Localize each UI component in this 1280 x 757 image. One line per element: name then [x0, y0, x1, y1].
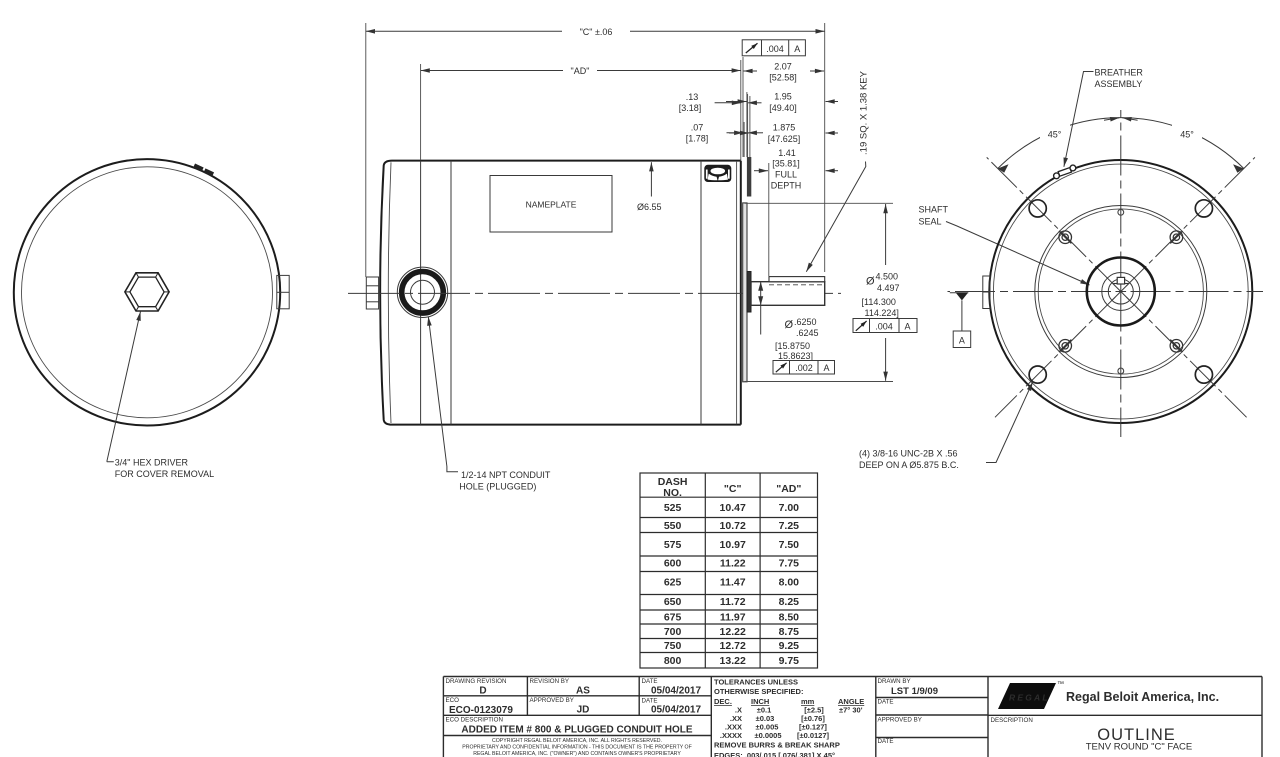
svg-text:550: 550 [664, 520, 682, 532]
svg-text:"C": "C" [724, 483, 742, 495]
right view second circle [993, 164, 1248, 419]
svg-text:[±0.0127]: [±0.0127] [797, 731, 830, 740]
svg-text:(4) 3/8-16 UNC-2B X .56: (4) 3/8-16 UNC-2B X .56 [859, 449, 958, 459]
left view right-side tab [277, 275, 289, 308]
svg-text:ECO: ECO [446, 697, 460, 704]
label 1/2-14 NPT CONDUIT HOLE (PLUGGED) [459, 470, 551, 492]
svg-text:APPROVED BY: APPROVED BY [878, 717, 922, 724]
left view rim tab (top right) [194, 166, 213, 175]
svg-text:.XXXX: .XXXX [720, 731, 742, 740]
svg-text:.07: .07 [691, 122, 704, 132]
svg-text:.6250: .6250 [794, 317, 817, 327]
svg-text:NO.: NO. [663, 487, 682, 499]
face chamfer circle [1038, 209, 1203, 374]
left view outer circle [14, 159, 280, 425]
shaft key [769, 277, 825, 282]
hex bolt on top right of body [704, 165, 731, 182]
svg-text:05/04/2017: 05/04/2017 [651, 686, 701, 697]
left small tab on cover [366, 277, 378, 309]
svg-text:675: 675 [664, 612, 682, 624]
svg-text:A: A [823, 363, 829, 373]
right view outer circle [989, 160, 1252, 423]
dash table grid [640, 473, 818, 668]
conduit hole circles [397, 267, 447, 317]
bearing circle [1102, 273, 1140, 311]
svg-text:FOR COVER REMOVAL: FOR COVER REMOVAL [115, 469, 214, 479]
svg-text:ECO DESCRIPTION: ECO DESCRIPTION [446, 717, 503, 724]
dim "AD" [421, 60, 741, 160]
svg-text:[52.58]: [52.58] [769, 73, 797, 83]
svg-text:11.47: 11.47 [720, 576, 746, 588]
svg-text:ADDED ITEM # 800 & PLUGGED CON: ADDED ITEM # 800 & PLUGGED CONDUIT HOLE [461, 725, 692, 736]
tiny holes top and bottom [1118, 209, 1124, 373]
svg-text:™: ™ [1057, 681, 1064, 688]
svg-text:12.22: 12.22 [720, 626, 746, 638]
svg-text:575: 575 [664, 539, 682, 551]
shaft keyway [1117, 277, 1124, 284]
svg-text:9.25: 9.25 [779, 640, 800, 652]
dim "C" +-.06 [366, 23, 825, 277]
svg-text:A: A [959, 336, 965, 346]
svg-text:7.25: 7.25 [779, 520, 800, 532]
bolt holes (4) 3/8-16 [1029, 200, 1212, 383]
svg-text:DRAWN BY: DRAWN BY [878, 678, 911, 685]
feature control frame .004 A (top) [742, 40, 805, 56]
svg-text:FULL: FULL [775, 170, 797, 180]
svg-text:[15.8750: [15.8750 [775, 341, 810, 351]
svg-text:OTHERWISE SPECIFIED:: OTHERWISE SPECIFIED: [714, 687, 803, 696]
svg-text:LST 1/9/09: LST 1/9/09 [891, 686, 938, 697]
svg-text:AS: AS [576, 686, 590, 697]
horizontal centerline [948, 291, 1264, 293]
tolerance block text [714, 678, 864, 757]
svg-text:"C" ±.06: "C" ±.06 [580, 27, 613, 37]
svg-text:DATE: DATE [642, 698, 658, 705]
svg-text:625: 625 [664, 576, 682, 588]
copyright fine print [462, 738, 692, 757]
datum A flag [950, 293, 971, 348]
dia 4.500 dimension line [885, 204, 887, 381]
svg-text:A: A [794, 44, 800, 54]
svg-text:"AD": "AD" [776, 483, 801, 495]
svg-text:1/2-14 NPT CONDUIT: 1/2-14 NPT CONDUIT [461, 470, 551, 480]
svg-text:10.97: 10.97 [720, 539, 746, 551]
svg-text:REGAL: REGAL [1009, 693, 1050, 703]
svg-text:ASSEMBLY: ASSEMBLY [1095, 79, 1143, 89]
svg-text:APPROVED BY: APPROVED BY [530, 697, 574, 704]
dash table rows [664, 502, 799, 667]
label (4) 3/8-16 UNC-2B X .56 DEEP ON A 5.875 B.C. [859, 449, 959, 470]
svg-text:[1.78]: [1.78] [686, 134, 709, 144]
svg-text:.6245: .6245 [796, 328, 819, 338]
svg-text:JD: JD [577, 705, 590, 716]
svg-text:[47.625]: [47.625] [768, 134, 801, 144]
dim 1.875 [47.625] [729, 96, 838, 157]
hatch lines through tapped holes [1059, 231, 1183, 352]
svg-text:7.00: 7.00 [779, 502, 800, 514]
left view inner circle [22, 167, 273, 418]
svg-text:DESCRIPTION: DESCRIPTION [991, 717, 1033, 724]
dim .07 [1.78] [686, 122, 763, 157]
leader to conduit hole [428, 317, 458, 472]
small tapped holes with hatch (4) [1059, 231, 1183, 352]
flange pilot plate [743, 203, 747, 382]
svg-text:8.50: 8.50 [779, 612, 800, 624]
svg-text:8.00: 8.00 [779, 576, 800, 588]
svg-text:NAMEPLATE: NAMEPLATE [526, 200, 577, 210]
svg-text:4.497: 4.497 [877, 283, 900, 293]
dim 2.07 [52.58] [743, 57, 824, 157]
shaft spline ticks [1112, 283, 1130, 301]
svg-text:DEC.: DEC. [714, 697, 732, 706]
svg-text:[35.81]: [35.81] [772, 159, 800, 169]
title block values [449, 686, 701, 736]
svg-text:1.41: 1.41 [778, 148, 796, 158]
leader shaft seal [946, 222, 1090, 286]
label SHAFT SEAL [919, 205, 949, 227]
svg-text:REVISION BY: REVISION BY [530, 678, 570, 685]
label dia 4.500 / 4.497 [114.300 114.224] [862, 272, 900, 319]
svg-text:45°: 45° [1048, 130, 1062, 140]
svg-text:Ø: Ø [785, 319, 794, 331]
shaft circle [1108, 279, 1133, 304]
svg-text:DATE: DATE [878, 699, 894, 706]
svg-text:1.875: 1.875 [773, 123, 796, 133]
svg-text:REGAL BELOIT AMERICA, INC. ("O: REGAL BELOIT AMERICA, INC. ("OWNER") AND… [473, 751, 681, 757]
svg-text:DEEP ON A Ø5.875 B.C.: DEEP ON A Ø5.875 B.C. [859, 460, 959, 470]
cover seam line [420, 161, 422, 425]
svg-text:114.224]: 114.224] [865, 308, 899, 318]
vertical centerline [1120, 110, 1122, 437]
svg-text:±0.0005: ±0.0005 [754, 731, 781, 740]
svg-text:750: 750 [664, 640, 682, 652]
svg-text:.13: .13 [686, 92, 699, 102]
svg-text:1.95: 1.95 [774, 92, 792, 102]
svg-text:±7° 30': ±7° 30' [839, 706, 863, 715]
svg-text:SEAL: SEAL [919, 217, 942, 227]
label 3/4" HEX DRIVER FOR COVER REMOVAL [115, 458, 214, 479]
label BREATHER ASSEMBLY [1064, 68, 1143, 167]
svg-text:ECO-0123079: ECO-0123079 [449, 705, 513, 716]
dia 4.500 extension lines [745, 203, 893, 381]
svg-text:COPYRIGHT REGAL BELOIT AMERICA: COPYRIGHT REGAL BELOIT AMERICA, INC. ALL… [492, 738, 662, 744]
svg-text:[114.300: [114.300 [862, 297, 896, 307]
motor left cover outline [380, 161, 451, 425]
svg-text:DRAWING REVISION: DRAWING REVISION [446, 678, 507, 685]
shaft [751, 282, 825, 306]
dim .13 [3.18] [679, 92, 762, 157]
svg-text:Ø: Ø [866, 276, 875, 288]
svg-text:"AD": "AD" [571, 66, 590, 76]
svg-text:3/4" HEX DRIVER: 3/4" HEX DRIVER [115, 458, 189, 468]
45 degree arc dimension [998, 118, 1244, 173]
svg-text:[49.40]: [49.40] [769, 103, 797, 113]
hex driver (3/4") [125, 273, 169, 311]
svg-text:REMOVE BURRS & BREAK SHARP: REMOVE BURRS & BREAK SHARP [714, 741, 840, 750]
diagonal centerlines [987, 157, 1255, 417]
dim 1.95 [49.40] [726, 92, 838, 157]
svg-text:650: 650 [664, 596, 682, 608]
flange top lug bar [747, 157, 751, 197]
svg-text:800: 800 [664, 655, 682, 667]
Regal logo [998, 681, 1064, 709]
svg-text:15.8623]: 15.8623] [778, 351, 813, 361]
svg-text:11.97: 11.97 [720, 612, 746, 624]
svg-text:9.75: 9.75 [779, 655, 800, 667]
svg-text:TOLERANCES UNLESS: TOLERANCES UNLESS [714, 678, 798, 687]
svg-text:13.22: 13.22 [720, 655, 746, 667]
feature control frame .002 A [773, 361, 835, 375]
svg-text:[3.18]: [3.18] [679, 103, 702, 113]
svg-text:DEPTH: DEPTH [771, 181, 802, 191]
svg-text:.002: .002 [795, 363, 813, 373]
svg-text:DATE: DATE [642, 678, 658, 685]
svg-text:600: 600 [664, 558, 682, 570]
title block small labels [446, 678, 1033, 745]
svg-text:05/04/2017: 05/04/2017 [651, 705, 701, 716]
svg-text:525: 525 [664, 502, 682, 514]
svg-text:2.07: 2.07 [774, 61, 792, 71]
svg-text:700: 700 [664, 626, 682, 638]
svg-text:EDGES: .003/.015 [.076/.381] X: EDGES: .003/.015 [.076/.381] X 45° [714, 751, 835, 757]
svg-text:4.500: 4.500 [876, 272, 899, 282]
svg-text:.19 SQ. X 1.38 KEY: .19 SQ. X 1.38 KEY [859, 70, 870, 155]
leader to key [806, 162, 866, 272]
breather assembly on rim [1054, 165, 1076, 179]
motor main body outline [451, 161, 741, 425]
shaft seal circle [1087, 258, 1155, 326]
cover inner lip line [388, 162, 391, 423]
face circle [1035, 206, 1207, 378]
left rim tab of right view [983, 276, 990, 309]
title block grid [443, 677, 1262, 757]
svg-text:.004: .004 [766, 44, 784, 54]
svg-text:SHAFT: SHAFT [919, 205, 949, 215]
leader to hex driver [107, 312, 141, 462]
svg-text:10.47: 10.47 [720, 502, 746, 514]
svg-text:.004: .004 [875, 321, 893, 331]
svg-text:TENV ROUND "C" FACE: TENV ROUND "C" FACE [1086, 742, 1193, 753]
svg-text:11.72: 11.72 [720, 596, 746, 608]
svg-text:DATE: DATE [878, 738, 894, 745]
svg-text:10.72: 10.72 [720, 520, 746, 532]
svg-text:PROPRIETARY AND CONFIDENTIAL I: PROPRIETARY AND CONFIDENTIAL INFORMATION… [462, 745, 692, 751]
dia .6250 dimension line [758, 282, 763, 335]
svg-text:Ø6.55: Ø6.55 [637, 202, 662, 212]
shaft slinger boss [747, 272, 751, 313]
dim 1.41 [35.81] FULL DEPTH [754, 148, 838, 276]
feature control frame .004 A (shaft dia) [853, 319, 917, 333]
svg-text:BREATHER: BREATHER [1095, 68, 1144, 78]
svg-text:8.75: 8.75 [779, 626, 800, 638]
svg-text:11.22: 11.22 [720, 558, 746, 570]
svg-text:12.72: 12.72 [720, 640, 746, 652]
svg-text:A: A [904, 321, 910, 331]
svg-text:8.25: 8.25 [779, 596, 800, 608]
svg-text:7.75: 7.75 [779, 558, 800, 570]
leader to bolt hole note [986, 382, 1033, 463]
dash table header [658, 476, 802, 499]
horizontal centerline of side view [348, 292, 841, 294]
dia 6.55 arrow [650, 162, 652, 196]
svg-text:45°: 45° [1180, 130, 1194, 140]
svg-text:Regal Beloit America, Inc.: Regal Beloit America, Inc. [1066, 690, 1219, 704]
svg-text:HOLE (PLUGGED): HOLE (PLUGGED) [459, 481, 536, 491]
svg-text:7.50: 7.50 [779, 539, 800, 551]
svg-text:D: D [479, 686, 486, 697]
label dia .6250/.6245 [15.8750 15.8623] [775, 317, 819, 361]
nameplate [490, 176, 612, 233]
keyway hidden line [769, 284, 825, 286]
